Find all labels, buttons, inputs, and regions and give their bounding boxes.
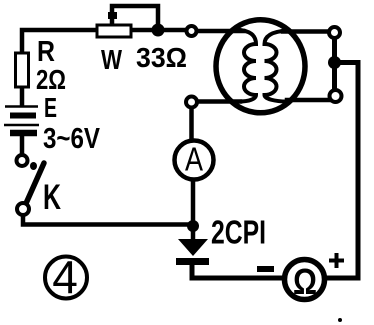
svg-text:2CPI: 2CPI [211,214,266,251]
svg-text:Ω: Ω [293,261,317,302]
svg-text:3~6V: 3~6V [43,123,101,155]
svg-text:2Ω: 2Ω [36,64,66,95]
svg-text:4: 4 [52,251,78,303]
svg-text:33Ω: 33Ω [136,42,187,73]
svg-text:K: K [43,178,61,217]
svg-text:E: E [44,92,57,123]
svg-text:W: W [101,44,122,75]
svg-text:A: A [185,141,203,178]
